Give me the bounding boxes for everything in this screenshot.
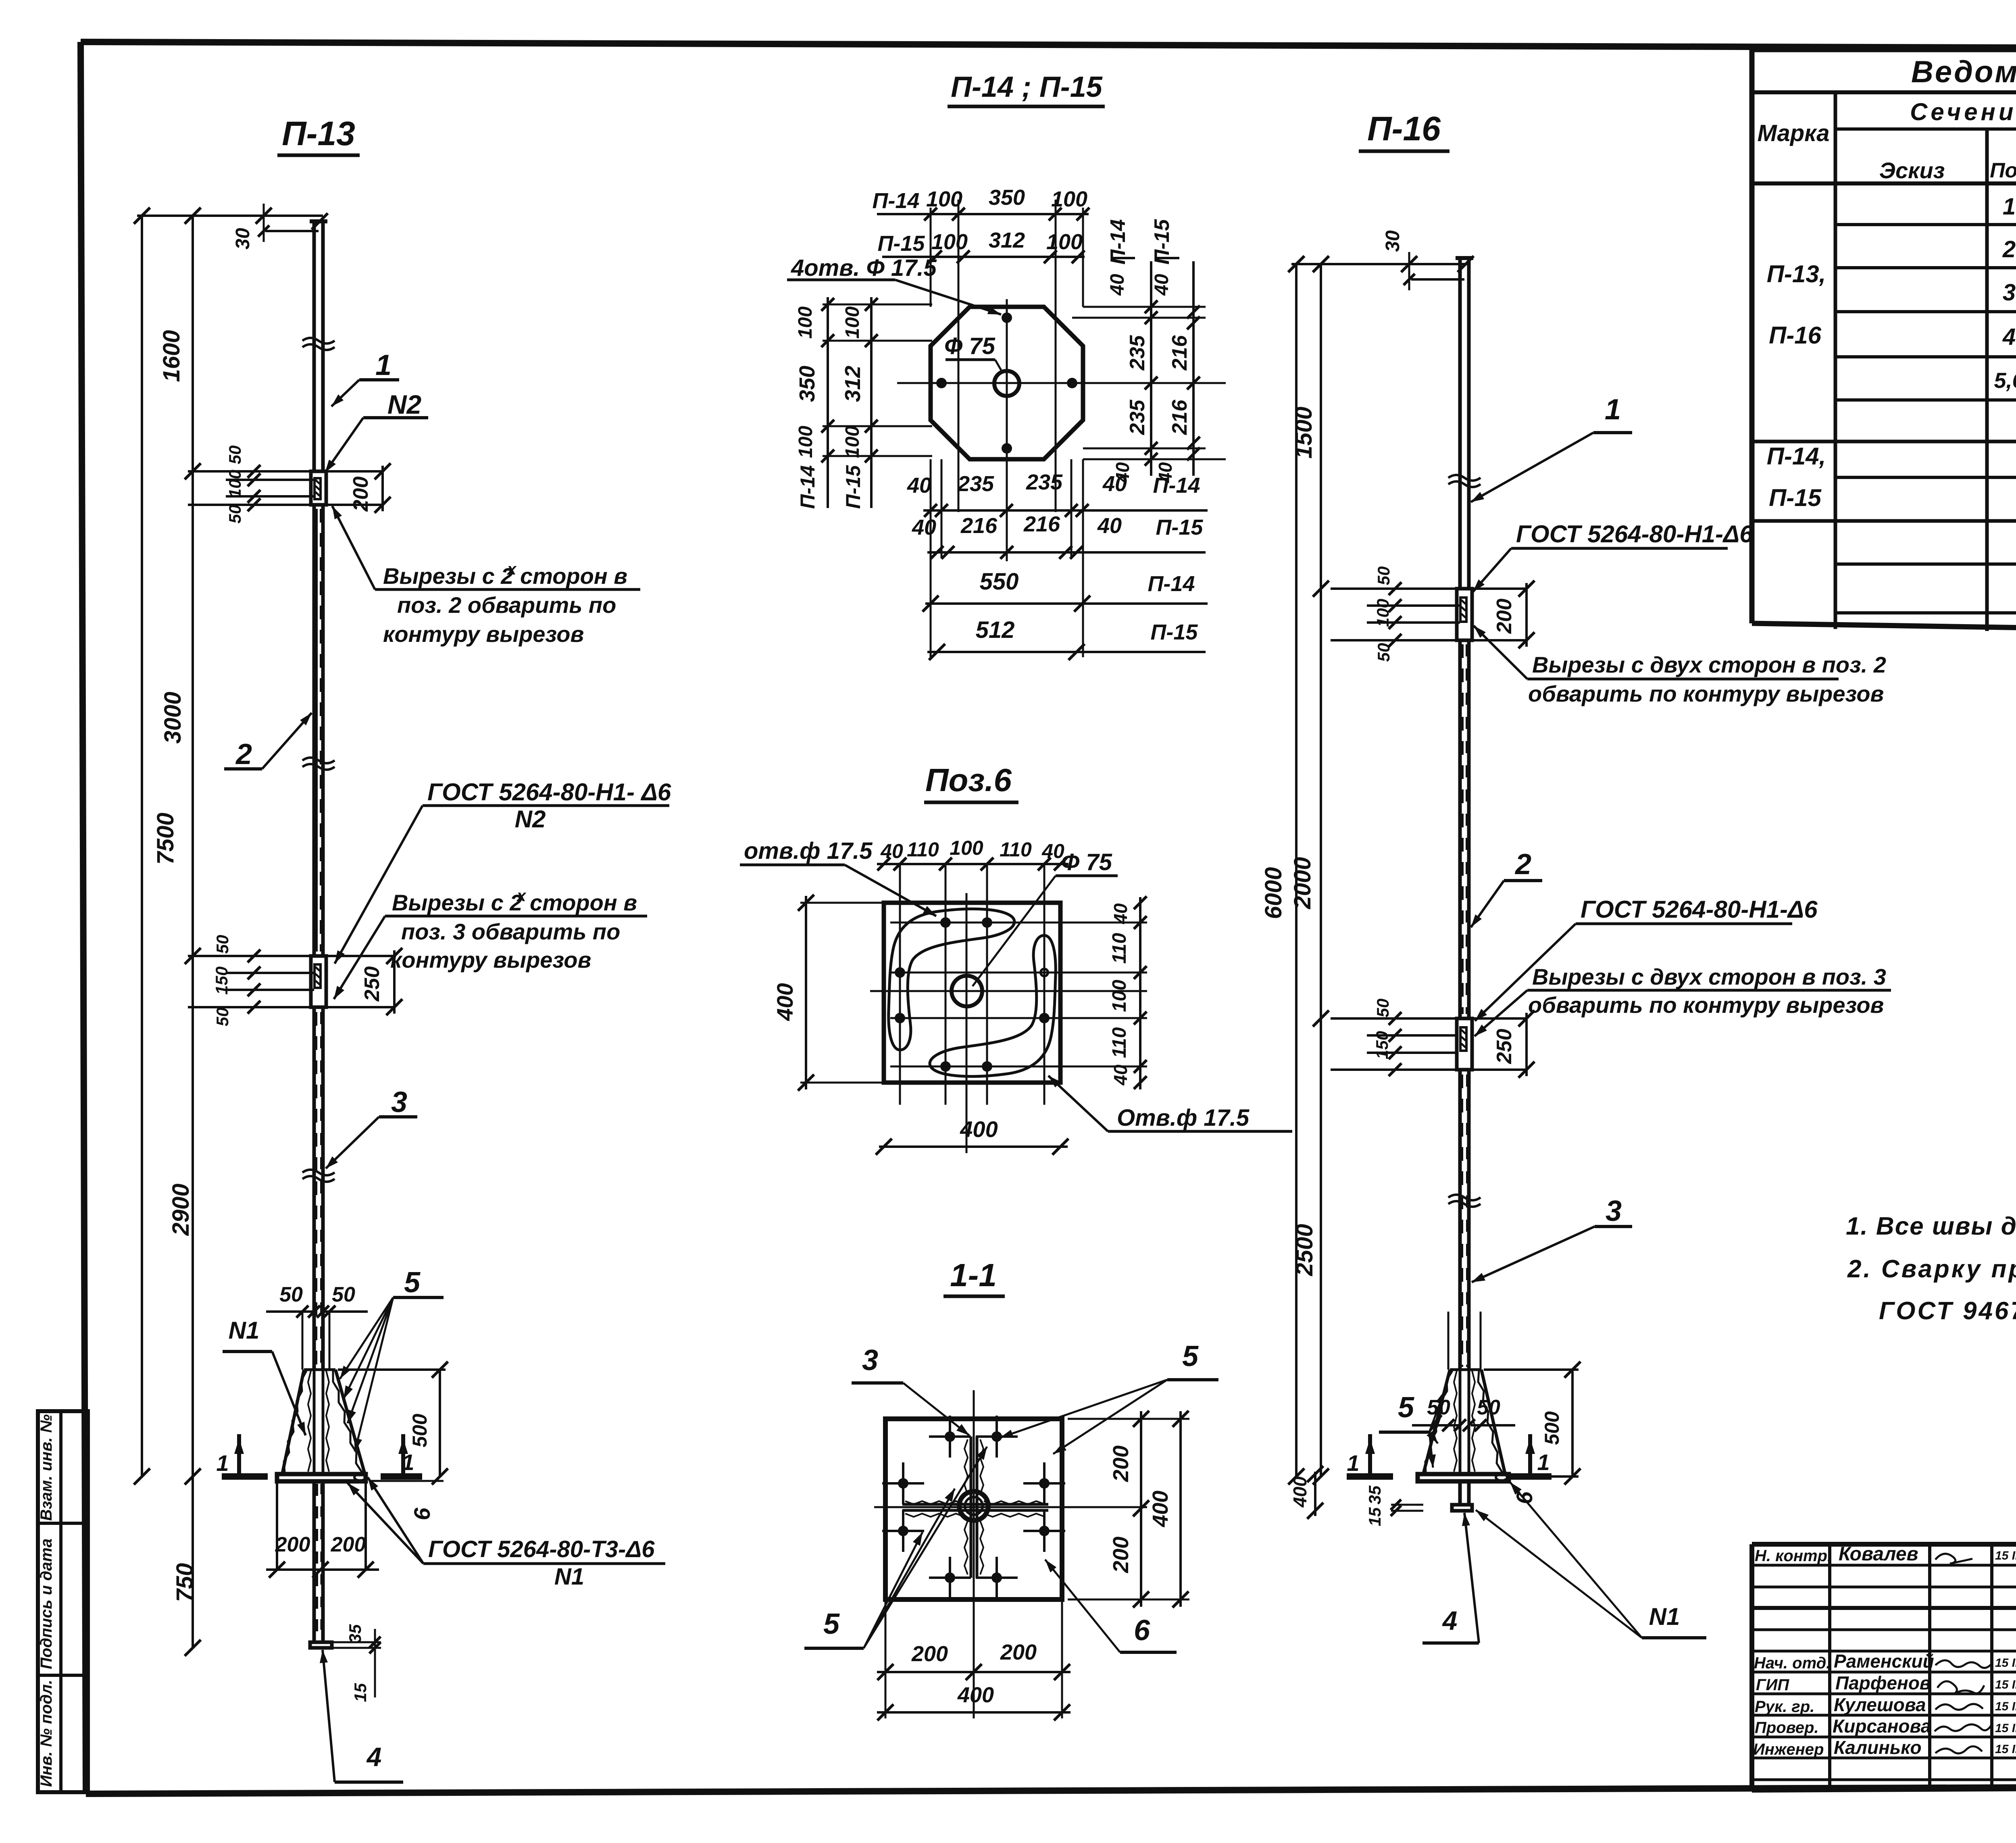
svg-text:1: 1 [402, 1449, 414, 1475]
svg-text:216: 216 [1023, 512, 1060, 536]
svg-text:100: 100 [931, 230, 968, 254]
svg-text:поз. 3 обварить по: поз. 3 обварить по [401, 919, 620, 944]
svg-text:П-14: П-14 [796, 465, 819, 509]
П-16 base 50 50 dimension [1412, 1396, 1515, 1431]
svg-text:Поз.6: Поз.6 [925, 762, 1012, 798]
Поз.6 grid lines [870, 864, 1147, 1153]
svg-text:Парфенов: Парфенов [1835, 1672, 1931, 1693]
svg-text:Ковалев: Ковалев [1839, 1543, 1918, 1565]
label F75 plan [944, 333, 1003, 373]
plan top dimension row П-15 100 312 100 [878, 228, 1085, 263]
svg-text:2: 2 [2002, 236, 2016, 262]
svg-text:П-14,: П-14, [1767, 443, 1826, 470]
svg-text:15 II 85: 15 II 85 [1995, 1700, 2016, 1713]
П-13 leader N2 upper [325, 389, 428, 473]
svg-text:2: 2 [235, 738, 252, 771]
svg-text:100: 100 [1046, 230, 1083, 254]
svg-text:х: х [516, 887, 527, 905]
Поз.6 right chain 40 110 100 110 40 [1109, 896, 1147, 1089]
П-16 dimension 500 cone [1484, 1362, 1581, 1485]
svg-text:4: 4 [2002, 324, 2016, 350]
svg-text:500: 500 [408, 1414, 431, 1447]
svg-text:N1: N1 [229, 1317, 260, 1344]
1-1 anchor bolt crosses [882, 1416, 1065, 1599]
svg-text:Ведомость элементов: Ведомость элементов [1911, 55, 2016, 89]
П-13 pipe break symbol middle [302, 758, 335, 763]
П-16 collar pos.5 upper sleeve [1457, 589, 1472, 640]
svg-text:200: 200 [331, 1533, 366, 1556]
1-1 bottom dimension 400 [877, 1683, 1070, 1720]
П-14 П-15 title [948, 71, 1105, 106]
П-16 note GOST lower [1475, 896, 1818, 1021]
svg-text:1-1: 1-1 [950, 1257, 997, 1293]
svg-text:2500: 2500 [1291, 1224, 1318, 1276]
svg-text:400: 400 [1289, 1476, 1310, 1508]
П-16 label 6 plate [1512, 1491, 1537, 1504]
svg-text:35: 35 [346, 1624, 364, 1643]
Поз.6 title [924, 762, 1018, 802]
П-16 pipe break symbol lower [1448, 1195, 1481, 1200]
svg-text:50: 50 [1374, 566, 1393, 585]
svg-text:35: 35 [1365, 1485, 1384, 1504]
svg-text:Ф 75: Ф 75 [944, 333, 996, 359]
1-1 label 5 lower left with fan [804, 1447, 987, 1648]
svg-text:Подпись и дата: Подпись и дата [37, 1539, 55, 1669]
svg-text:15: 15 [351, 1683, 370, 1702]
plan left vertical chains 100 350 100 П-14 and 100 312 100 П-15 [795, 297, 932, 509]
svg-text:235: 235 [957, 472, 994, 496]
svg-text:40: 40 [912, 515, 936, 539]
svg-text:6000: 6000 [1260, 867, 1287, 919]
1-1 right dimension 400 [1148, 1411, 1189, 1608]
svg-text:Вырезы с 2: Вырезы с 2 [383, 563, 513, 589]
svg-text:4отв. Ф 17.5: 4отв. Ф 17.5 [791, 255, 937, 281]
Поз.6 center hole Ф75 [952, 976, 982, 1006]
Vedomost elements table grid [1752, 50, 2016, 636]
П-13 GOST 5264-80-T3 text [348, 1477, 665, 1590]
svg-text:N2: N2 [387, 389, 422, 419]
П-13 collar pos.5 upper sleeve [311, 471, 326, 505]
1-1 label 5 upper right [1000, 1340, 1218, 1454]
Поз.6 top dimension 40 110 100 110 40 [877, 837, 1068, 870]
svg-text:100: 100 [842, 306, 863, 339]
svg-text:200: 200 [911, 1642, 948, 1666]
Vedomost data row 5-6 [1994, 367, 2016, 393]
П-16 leader 1 [1471, 394, 1632, 502]
П-13 note GOST 5264-80-N1 text [335, 779, 671, 964]
svg-text:5,6: 5,6 [1994, 369, 2016, 393]
П-16 pipe break symbol upper [1448, 475, 1481, 481]
svg-text:П-13: П-13 [282, 115, 355, 152]
П-16 base cone pos.5 gussets [1423, 1312, 1505, 1474]
svg-text:Инженер: Инженер [1753, 1741, 1824, 1758]
svg-text:Ф 75: Ф 75 [1061, 849, 1112, 875]
П-13 collar2 dimension 50 150 50 and 250 [188, 935, 402, 1027]
svg-text:6: 6 [1134, 1614, 1150, 1647]
Поз.6 label F75 upper right [973, 849, 1118, 986]
svg-text:Поз: Поз [1990, 159, 2016, 182]
svg-text:40: 40 [880, 840, 903, 862]
П-16 base plate pos.6 [1418, 1474, 1509, 1481]
П-16 top dimension line with 30 [1288, 230, 1474, 290]
Поз.6 left dimension 400 [772, 895, 884, 1091]
plan right vertical chain П-15 40 216 216 40 [1150, 219, 1200, 483]
svg-text:50: 50 [1374, 643, 1393, 662]
svg-text:100: 100 [950, 837, 983, 859]
П-16 note GOST upper [1473, 521, 1753, 592]
svg-text:150: 150 [1372, 1031, 1391, 1059]
1-1 center lines [874, 1390, 1147, 1718]
1-1 base plate square [885, 1419, 1062, 1599]
П-13 stub dimensions 200 200 [266, 1533, 379, 1578]
svg-text:40: 40 [1097, 514, 1122, 538]
Поз.6 bolt holes [895, 917, 1050, 1072]
svg-text:Раменский: Раменский [1834, 1651, 1934, 1672]
svg-text:ГОСТ 5264-80-Т3-Δ6: ГОСТ 5264-80-Т3-Δ6 [428, 1536, 655, 1562]
П-13 base 50 50 dimension [266, 1283, 368, 1318]
Поз.6 square plate outline [884, 903, 1060, 1083]
svg-text:400: 400 [957, 1683, 994, 1707]
svg-text:Провер.: Провер. [1755, 1719, 1819, 1737]
svg-text:2. Сварку производить электро: 2. Сварку производить электродами типа Э… [1847, 1255, 2016, 1283]
1-1 right dimension 200 200 [1068, 1411, 1189, 1608]
svg-text:50: 50 [213, 935, 232, 954]
svg-text:2000: 2000 [1289, 857, 1316, 909]
svg-text:поз. 2 обварить по: поз. 2 обварить по [397, 592, 616, 618]
П-13 section flag 1-1 right [381, 1434, 422, 1476]
svg-text:3: 3 [1606, 1195, 1622, 1227]
Vedomost data row 3 [2003, 279, 2016, 306]
svg-text:15 II 85: 15 II 85 [1995, 1722, 2016, 1735]
plan bottom row 512 П-15 [927, 617, 1206, 660]
svg-text:Нач. отд.: Нач. отд. [1754, 1654, 1831, 1672]
П-16 section flag 1-1 left [1347, 1434, 1393, 1476]
svg-text:2: 2 [1514, 848, 1531, 881]
svg-text:40: 40 [1102, 472, 1127, 496]
П-13 anchor stub pos.4 below plate [277, 1481, 366, 1648]
svg-text:110: 110 [1109, 933, 1130, 964]
Поз.6 bottom dimension 400 [876, 1116, 1068, 1155]
svg-text:100: 100 [1373, 599, 1392, 627]
1-1 label 3 upper left [852, 1344, 969, 1435]
Vedomost data row 4 [2002, 324, 2016, 350]
svg-text:П-14: П-14 [1153, 473, 1200, 498]
П-13 dimension 7500 line [134, 208, 179, 1485]
svg-text:500: 500 [1541, 1411, 1563, 1445]
svg-text:400: 400 [772, 983, 798, 1021]
svg-text:П-15: П-15 [1769, 484, 1822, 511]
svg-text:П-14: П-14 [1148, 572, 1195, 596]
svg-text:750: 750 [172, 1563, 198, 1602]
П-16 collar1 dimension 50 100 50 and 200 [1331, 566, 1535, 662]
svg-text:100: 100 [926, 187, 962, 211]
svg-text:110: 110 [907, 838, 939, 861]
svg-text:550: 550 [980, 569, 1019, 595]
П-13 leader 1 [331, 349, 399, 406]
svg-text:250: 250 [1493, 1029, 1516, 1064]
П-14 П-15 octagon plate outline [931, 307, 1083, 459]
П-13 leader 2 [224, 713, 312, 771]
svg-text:П-15: П-15 [842, 465, 864, 509]
svg-text:350: 350 [989, 185, 1025, 210]
1-1 section title [943, 1257, 1005, 1296]
svg-text:Эскиз: Эскиз [1879, 158, 1945, 183]
svg-text:110: 110 [1109, 1027, 1130, 1058]
П-13 dimension 500 cone [338, 1362, 448, 1485]
svg-text:Кирсанова: Кирсанова [1833, 1716, 1931, 1737]
svg-text:235: 235 [1026, 470, 1063, 494]
svg-text:350: 350 [795, 366, 819, 402]
svg-text:235: 235 [1126, 335, 1149, 371]
П-16 leader 5 with fan [1379, 1391, 1444, 1468]
Vedomost marka column labels [1767, 260, 1826, 511]
svg-text:50: 50 [1477, 1396, 1500, 1419]
plan bottom row 40 235 235 40 П-14 [907, 470, 1208, 517]
svg-text:1: 1 [1537, 1449, 1549, 1475]
svg-text:50: 50 [213, 1008, 232, 1027]
svg-text:216: 216 [1168, 335, 1191, 371]
svg-text:Вырезы с двух сторон в поз.: Вырезы с двух сторон в поз. 3 [1532, 964, 1886, 989]
svg-text:ГОСТ 5264-80-Н1-Δ6: ГОСТ 5264-80-Н1-Δ6 [1581, 896, 1818, 923]
svg-text:2900: 2900 [168, 1183, 194, 1236]
П-13 note cutouts pos.2 text [332, 506, 640, 647]
svg-text:3000: 3000 [160, 691, 186, 743]
svg-text:5: 5 [1182, 1340, 1199, 1372]
П-16 note cutouts pos.2 [1474, 626, 1886, 706]
svg-text:контуру вырезов: контуру вырезов [383, 621, 584, 647]
Vedomost data row 1 [2003, 194, 2016, 220]
П-16 leader N1 bottom [1476, 1482, 1706, 1638]
П-16 pole shaft pos.1 tube [1456, 258, 1473, 589]
svg-text:40: 40 [1151, 274, 1173, 296]
svg-text:100: 100 [842, 426, 863, 458]
svg-text:ГИП: ГИП [1756, 1676, 1789, 1694]
П-13 title [277, 115, 360, 155]
П-16 title [1359, 110, 1450, 151]
П-16 pole shaft pos.3 tube [1460, 1070, 1469, 1370]
svg-text:1: 1 [375, 349, 392, 381]
title block signature rows [1753, 1543, 2016, 1758]
svg-text:200: 200 [275, 1533, 310, 1556]
svg-text:50: 50 [332, 1283, 355, 1306]
1-1 label 6 lower right [1045, 1560, 1177, 1652]
plan bottom row 550 П-14 [923, 569, 1208, 612]
svg-text:100: 100 [795, 306, 816, 339]
svg-text:сторон в: сторон в [530, 890, 637, 915]
П-13 pole shaft pos.2 tube [314, 505, 323, 956]
svg-text:Рук. гр.: Рук. гр. [1755, 1698, 1814, 1716]
svg-text:П-16: П-16 [1769, 322, 1822, 349]
П-16 leader 4 bottom [1422, 1513, 1479, 1643]
svg-text:50: 50 [225, 505, 244, 524]
svg-text:200: 200 [1109, 1537, 1133, 1573]
svg-text:40: 40 [1110, 1064, 1131, 1086]
svg-text:100: 100 [1109, 980, 1130, 1012]
svg-text:1600: 1600 [158, 330, 185, 382]
svg-text:х: х [506, 560, 517, 578]
svg-text:Вырезы с 2: Вырезы с 2 [392, 890, 522, 915]
Поз.6 label otv f17.5 upper left [740, 838, 936, 916]
svg-text:П-13,: П-13, [1767, 260, 1826, 287]
plan top dimension row П-14 100 350 100 [873, 185, 1089, 221]
svg-text:1500: 1500 [1291, 406, 1317, 458]
П-14 П-15 hole Ф75 center [994, 371, 1019, 396]
svg-text:Кулешова: Кулешова [1834, 1694, 1926, 1715]
svg-text:100: 100 [1051, 187, 1087, 211]
svg-text:200: 200 [349, 477, 373, 512]
П-14 П-15 center lines [897, 299, 1226, 561]
svg-text:обварить по контуру вырезов: обварить по контуру вырезов [1528, 992, 1884, 1018]
П-16 collar2 dimension 50 150 and 250 [1331, 999, 1535, 1078]
svg-text:Марка: Марка [1757, 120, 1829, 146]
svg-text:Сечение: Сечение [1910, 98, 2016, 125]
svg-text:Вырезы с двух сторон в поз. 2: Вырезы с двух сторон в поз. 2 [1532, 652, 1886, 677]
svg-text:П-15: П-15 [1156, 515, 1204, 539]
svg-text:Взам. инв. №: Взам. инв. № [37, 1414, 55, 1521]
svg-text:512: 512 [976, 617, 1015, 643]
П-13 base plate pos.6 [277, 1474, 366, 1481]
svg-text:контуру вырезов: контуру вырезов [390, 947, 591, 973]
svg-text:312: 312 [841, 366, 865, 402]
П-16 section flag 1-1 right [1507, 1434, 1552, 1476]
П-13 dimension 35 15 bottom [333, 1624, 381, 1702]
svg-text:3: 3 [2003, 279, 2016, 306]
svg-text:ГОСТ 5264-80-Н1-Δ6: ГОСТ 5264-80-Н1-Δ6 [1516, 521, 1753, 548]
Поз.6 cutout freeform curve lower [930, 935, 1056, 1077]
П-13 leader 3 [326, 1086, 417, 1168]
П-13 leader 5 with fan [340, 1266, 444, 1451]
П-13 note cutouts pos.3 text [334, 887, 647, 999]
svg-text:отв.ф 17.5: отв.ф 17.5 [744, 838, 873, 864]
svg-text:150: 150 [212, 966, 231, 995]
svg-text:4: 4 [366, 1742, 382, 1772]
svg-text:40: 40 [907, 473, 931, 498]
label 4 otv F17.5 [787, 255, 1001, 314]
svg-text:5: 5 [823, 1608, 840, 1640]
П-16 note cutouts pos.3 [1475, 964, 1891, 1036]
svg-text:П-15: П-15 [1151, 620, 1198, 644]
svg-text:1: 1 [2003, 194, 2016, 220]
П-13 base cone pos.5 gussets [282, 1312, 365, 1474]
svg-text:30: 30 [232, 228, 254, 250]
П-13 collar1 dimension 50 100 50 and 200 [188, 446, 391, 524]
svg-text:110: 110 [1000, 838, 1032, 861]
svg-text:3: 3 [862, 1344, 878, 1377]
1-1 center pipe section [959, 1491, 988, 1520]
svg-text:N1: N1 [554, 1564, 584, 1590]
svg-text:1. Все швы должны быть плотно-: 1. Все швы должны быть плотно- герметиче… [1846, 1212, 2016, 1240]
svg-text:1: 1 [1605, 394, 1621, 426]
plan bottom row 40 216 216 40 П-15 [912, 512, 1206, 559]
П-13 pole shaft pos.1 tube [310, 221, 327, 471]
svg-text:4: 4 [1442, 1606, 1458, 1635]
П-13 top dimension line with 30 [134, 204, 328, 250]
title block grid [1752, 1544, 2016, 1790]
П-13 collar pos.6 lower sleeve [311, 956, 326, 1007]
svg-text:30: 30 [1382, 230, 1404, 252]
svg-text:40: 40 [1107, 274, 1128, 296]
svg-text:15 II 85: 15 II 85 [1995, 1656, 2016, 1670]
П-13 label 6 plate [369, 1481, 444, 1520]
П-13 pipe break symbol lower [302, 1170, 335, 1175]
П-13 leader N1 cone [223, 1317, 306, 1435]
Поз.6 cutout freeform curve upper [889, 909, 1014, 1050]
svg-text:400: 400 [960, 1116, 998, 1142]
П-16 leader 2 [1471, 848, 1542, 927]
svg-text:Отв.ф 17.5: Отв.ф 17.5 [1117, 1105, 1250, 1131]
svg-text:обварить по контуру вырезов: обварить по контуру вырезов [1528, 681, 1884, 706]
svg-text:200: 200 [1493, 599, 1516, 634]
Vedomost data row 2 [2002, 236, 2016, 262]
svg-text:П-14 ; П-15: П-14 ; П-15 [951, 71, 1103, 103]
П-16 leader 3 [1472, 1195, 1632, 1282]
svg-text:Инв. № подл.: Инв. № подл. [37, 1680, 55, 1787]
svg-text:40: 40 [1110, 903, 1131, 925]
svg-text:200: 200 [1000, 1640, 1037, 1664]
П-16 dimension 6000 line [1260, 256, 1304, 1485]
svg-text:5: 5 [1398, 1391, 1414, 1424]
П-14 П-15 bolt holes 4 off [931, 200, 1083, 657]
svg-text:15: 15 [1365, 1507, 1384, 1526]
svg-text:ГОСТ 5264-80-Н1- Δ6: ГОСТ 5264-80-Н1- Δ6 [427, 779, 671, 806]
1-1 cross rib pos.5 with welds [902, 1437, 1048, 1578]
svg-text:N1: N1 [1649, 1603, 1680, 1630]
П-13 pole shaft pos.3 tube [314, 1007, 323, 1370]
svg-text:N2: N2 [515, 806, 546, 833]
svg-text:250: 250 [360, 966, 384, 1002]
svg-text:100: 100 [795, 426, 816, 458]
1-1 bottom dimension 200 200 [877, 1599, 1070, 1718]
svg-text:15 II 85: 15 II 85 [1995, 1743, 2016, 1756]
Поз.6 label otv f17.5 lower right [1048, 1076, 1292, 1131]
П-13 dimension chain 1600 3000 2900 750 [158, 208, 201, 1656]
svg-text:5: 5 [404, 1266, 421, 1299]
П-16 anchor stub pos.4 [1452, 1481, 1472, 1511]
svg-text:216: 216 [1168, 400, 1191, 435]
svg-text:сторон в: сторон в [520, 563, 627, 589]
svg-text:Н. контр.: Н. контр. [1755, 1547, 1832, 1565]
svg-text:ГОСТ 9467-75.: ГОСТ 9467-75. [1879, 1297, 2016, 1325]
svg-text:7500: 7500 [152, 812, 179, 864]
П-13 pipe break symbol upper [302, 338, 335, 344]
plan right vertical chain П-14 40 235 235 40 [1072, 219, 1226, 483]
svg-text:216: 216 [960, 514, 998, 538]
svg-text:235: 235 [1126, 400, 1149, 435]
Vedomost table headers [1757, 98, 2016, 190]
svg-text:100: 100 [225, 470, 244, 498]
svg-text:П-14: П-14 [873, 189, 920, 213]
П-16 dimension 400 35 15 bottom [1289, 1466, 1423, 1526]
svg-text:15 II 85: 15 II 85 [1995, 1549, 2016, 1562]
svg-text:15 II 85: 15 II 85 [1995, 1678, 2016, 1691]
svg-text:400: 400 [1148, 1491, 1173, 1527]
П-16 collar pos.6 lower sleeve [1457, 1018, 1472, 1070]
svg-text:50: 50 [1373, 999, 1392, 1018]
title block signature squiggles [1935, 1554, 1992, 1753]
svg-text:50: 50 [225, 446, 244, 464]
svg-text:1: 1 [216, 1450, 229, 1476]
svg-text:П-15: П-15 [878, 231, 925, 256]
left margin stamp boxes [37, 1411, 88, 1792]
П-13 leader 4 bottom [320, 1650, 403, 1782]
П-16 pole shaft pos.2 tube [1460, 640, 1469, 1018]
svg-text:50: 50 [279, 1283, 303, 1306]
svg-text:3: 3 [391, 1086, 407, 1118]
svg-text:1: 1 [1347, 1450, 1359, 1476]
П-16 dimension chain 1500 2000 2500 [1289, 256, 1329, 1485]
svg-text:Калинько: Калинько [1834, 1737, 1922, 1758]
svg-text:П-16: П-16 [1367, 110, 1441, 148]
